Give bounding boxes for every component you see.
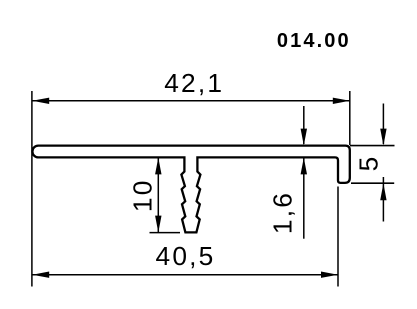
svg-text:40,5: 40,5: [156, 241, 216, 271]
extension line 5 top: [350, 145, 395, 147]
arrowhead 40,5 left: [32, 272, 49, 278]
arrowhead 1,6 up: [301, 157, 307, 174]
leader line 1,6 upper: [303, 106, 305, 144]
extension line right bottom: [337, 187, 339, 287]
dimension line 40,5: [32, 274, 338, 276]
arrowhead 10 up: [155, 157, 161, 174]
arrowhead 10 down: [155, 216, 161, 233]
arrowhead 5 down: [380, 129, 386, 146]
dimension line 10: [157, 157, 159, 232]
arrowhead 42,1 right: [333, 98, 350, 104]
svg-text:014.00: 014.00: [277, 30, 351, 52]
svg-text:10: 10: [128, 178, 158, 212]
profile outline (top bar, right lip, barbed leg): [32, 146, 349, 233]
leader line 5 lower: [382, 177, 384, 222]
arrowhead 42,1 left: [32, 98, 49, 104]
arrowhead 1,6 down: [301, 129, 307, 146]
extension line 5 bottom: [351, 182, 394, 184]
extension line left: [31, 91, 33, 287]
leader line 5 upper: [382, 104, 384, 145]
svg-text:42,1: 42,1: [164, 68, 224, 98]
extension line right top: [349, 91, 351, 145]
svg-text:1,6: 1,6: [267, 191, 297, 234]
leader line 1,6 lower: [303, 157, 305, 238]
dimension line 42,1: [32, 100, 350, 102]
extension line leg bottom: [150, 232, 181, 234]
svg-text:5: 5: [354, 155, 384, 172]
arrowhead 5 up: [380, 183, 386, 200]
arrowhead 40,5 right: [321, 272, 338, 278]
